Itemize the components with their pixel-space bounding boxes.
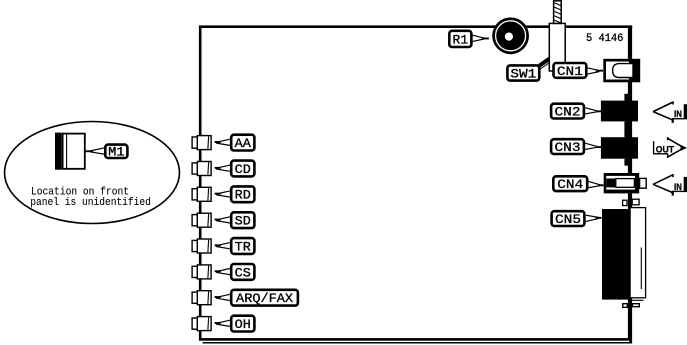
connector CN5 mounting tabs top bbox=[623, 199, 640, 205]
pointer CN1 bbox=[588, 68, 603, 74]
LED TR bbox=[192, 239, 211, 253]
board shadow bottom edge bbox=[203, 342, 633, 344]
LED SD bbox=[192, 213, 211, 227]
label AA bbox=[231, 135, 254, 151]
connector CN3 bbox=[601, 137, 638, 165]
pointer CS bbox=[215, 269, 230, 275]
svg-text:M1: M1 bbox=[108, 145, 125, 160]
board edge stub below CN5 bbox=[628, 300, 631, 309]
svg-text:SD: SD bbox=[235, 214, 251, 229]
label M1 bbox=[105, 145, 127, 160]
svg-text:SW1: SW1 bbox=[510, 66, 536, 81]
svg-text:AA: AA bbox=[235, 136, 251, 151]
label R1 bbox=[449, 31, 471, 48]
switch SW1 body bbox=[549, 23, 565, 71]
connector CN5 mounting tabs bottom bbox=[623, 304, 640, 308]
label SW1 bbox=[507, 65, 539, 81]
svg-text:CN1: CN1 bbox=[557, 64, 583, 79]
pointer RD bbox=[215, 191, 230, 197]
svg-text:CS: CS bbox=[235, 265, 251, 280]
arrow IN (CN2) bbox=[653, 102, 687, 123]
label OH bbox=[231, 316, 254, 332]
connector CN1 bbox=[603, 59, 640, 83]
svg-text:OUT: OUT bbox=[656, 144, 674, 155]
connector CN4 bbox=[604, 173, 646, 193]
label CS bbox=[231, 264, 254, 280]
label RD bbox=[231, 186, 254, 202]
balloon note text bbox=[30, 186, 151, 209]
svg-text:CN3: CN3 bbox=[555, 140, 581, 155]
label CN2 bbox=[551, 104, 584, 120]
board shadow right edge bbox=[629, 26, 632, 343]
svg-text:OH: OH bbox=[235, 317, 251, 332]
svg-text:TR: TR bbox=[235, 239, 251, 254]
svg-text:R1: R1 bbox=[453, 32, 469, 47]
pointer CN5 bbox=[586, 215, 602, 221]
pointer CN2 bbox=[585, 108, 602, 114]
LED CS bbox=[192, 265, 211, 279]
label CD bbox=[231, 161, 254, 177]
arrow OUT (CN3) bbox=[654, 137, 687, 158]
pointer SD bbox=[215, 217, 230, 223]
svg-text:IN: IN bbox=[674, 109, 682, 120]
pointer CN4 bbox=[589, 181, 604, 187]
svg-text:panel is unidentified: panel is unidentified bbox=[30, 197, 151, 209]
label CN5 bbox=[552, 211, 585, 227]
balloon ellipse bbox=[5, 122, 180, 224]
label SD bbox=[231, 212, 254, 228]
pointer AA bbox=[215, 139, 230, 145]
label TR bbox=[231, 238, 254, 254]
svg-text:CN5: CN5 bbox=[555, 212, 581, 227]
label CN1 bbox=[554, 63, 587, 79]
pointer CD bbox=[215, 165, 230, 171]
svg-text:RD: RD bbox=[235, 188, 251, 203]
svg-text:CN2: CN2 bbox=[555, 105, 581, 120]
pointer ARQ/FAX bbox=[215, 294, 230, 300]
svg-text:IN: IN bbox=[674, 182, 682, 193]
pointer M1 bbox=[86, 148, 104, 154]
pointer CN3 bbox=[585, 143, 602, 149]
connector CN5 shell bbox=[630, 208, 646, 301]
speaker R1 bbox=[492, 17, 529, 54]
LED ARQ/FAX bbox=[192, 291, 211, 305]
connector CN5 body bbox=[602, 209, 630, 300]
pointer SW1 bbox=[537, 57, 550, 70]
pointer R1 bbox=[473, 35, 489, 41]
connector CN2 bbox=[601, 94, 638, 138]
svg-text:CN4: CN4 bbox=[557, 177, 583, 192]
LED OH bbox=[192, 317, 211, 331]
svg-text:CD: CD bbox=[235, 162, 251, 177]
label ARQ/FAX bbox=[231, 290, 298, 306]
svg-text:ARQ/FAX: ARQ/FAX bbox=[236, 291, 293, 306]
LED CD bbox=[192, 162, 211, 176]
arrow IN (CN4) bbox=[653, 174, 687, 195]
label CN3 bbox=[551, 139, 584, 155]
board outline bbox=[200, 27, 629, 340]
switch SW1 shaft bbox=[554, 1, 562, 24]
board edge stub above CN5 bbox=[628, 193, 631, 209]
LED AA bbox=[192, 136, 211, 150]
pointer TR bbox=[215, 243, 230, 249]
pointer OH bbox=[215, 320, 230, 326]
speaker M1 bbox=[55, 133, 85, 170]
LED RD bbox=[192, 187, 211, 201]
label CN4 bbox=[553, 176, 587, 192]
svg-text:5 4146: 5 4146 bbox=[586, 33, 623, 45]
